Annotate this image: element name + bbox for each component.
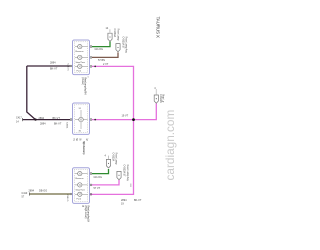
junction S-dot on W1 xyxy=(34,118,36,120)
U2 pin circles xyxy=(70,119,92,121)
W1 left end tick xyxy=(21,118,24,121)
wire W3 brown park feed upper xyxy=(92,52,119,57)
svg-text:BK-VT: BK-VT xyxy=(53,117,61,120)
svg-text:Rear Lamp: Rear Lamp xyxy=(115,153,118,165)
component U2 high mounted stoplamp box xyxy=(73,103,90,134)
svg-text:19 VT: 19 VT xyxy=(122,115,129,118)
W4 tick mark on vertical xyxy=(130,184,133,188)
svg-text:57 BN: 57 BN xyxy=(98,59,105,62)
connector C3 inline pentagon right pink xyxy=(154,95,158,103)
svg-text:Stop/Turn: Stop/Turn xyxy=(76,188,86,191)
bulb B1 reverse xyxy=(78,44,82,48)
wire W1 dark BK-VT stop lamp feed xyxy=(23,66,71,120)
bulb B3 park xyxy=(78,64,82,68)
connector C1 inline pentagon upper green xyxy=(108,33,112,41)
bulb B4 chmsl xyxy=(79,117,84,122)
component U3 rear lamp assembly lower box xyxy=(73,168,90,204)
svg-text:Reverse: Reverse xyxy=(76,50,85,53)
wire W6 green backup feed lower xyxy=(92,169,109,174)
connector C4 inline pentagon lower green xyxy=(106,159,110,168)
svg-text:19: 19 xyxy=(121,203,124,206)
svg-text:4: 4 xyxy=(105,154,107,157)
W5 junction dot xyxy=(132,118,135,121)
bulb B6 stop/turn xyxy=(78,183,82,187)
connector C2 inline pentagon upper brown xyxy=(116,44,120,52)
svg-text:C417: C417 xyxy=(16,116,22,119)
wire W7 pink VT lower mid xyxy=(92,180,120,185)
pentagon pin dots xyxy=(108,36,157,175)
U3 row leads xyxy=(75,174,88,195)
svg-text:14: 14 xyxy=(16,121,19,124)
svg-text:Mt: Mt xyxy=(75,138,78,141)
svg-text:2894: 2894 xyxy=(50,62,56,65)
svg-text:cardiagn.com: cardiagn.com xyxy=(163,110,177,181)
bulb B5 reverse xyxy=(78,171,82,175)
svg-text:C4331A 57: C4331A 57 xyxy=(121,37,124,50)
svg-text:Stop/Turn: Stop/Turn xyxy=(76,61,86,64)
U2 leads xyxy=(75,110,88,129)
svg-text:(Outer): (Outer) xyxy=(81,77,84,85)
svg-text:GN-OG: GN-OG xyxy=(95,48,104,51)
svg-text:2894: 2894 xyxy=(29,190,35,193)
svg-text:C4332A: C4332A xyxy=(111,153,114,162)
svg-text:C4331A: C4331A xyxy=(113,29,116,38)
svg-text:C4332A 57: C4332A 57 xyxy=(123,165,126,178)
U3 pin circles xyxy=(70,173,92,196)
svg-text:Rear Lamp: Rear Lamp xyxy=(116,29,119,41)
svg-text:C411 5: C411 5 xyxy=(66,195,68,203)
svg-text:St: St xyxy=(78,138,81,141)
wire W4 pink VT stop/turn upper + vertical run xyxy=(91,66,134,194)
U1 pin circles right xyxy=(70,46,92,68)
svg-text:DB-OG: DB-OG xyxy=(39,190,47,193)
svg-text:C4331: C4331 xyxy=(66,122,68,129)
wire W5 pink VT middle horizontal xyxy=(92,103,157,119)
svg-text:B: B xyxy=(81,206,84,208)
svg-text:C4331B: C4331B xyxy=(159,94,162,103)
svg-text:(High Level): (High Level) xyxy=(84,206,87,219)
C4 pin leader xyxy=(107,156,110,159)
svg-text:57 VT: 57 VT xyxy=(94,187,101,190)
svg-text:2 VT: 2 VT xyxy=(103,63,109,66)
svg-text:Hi: Hi xyxy=(72,138,75,141)
svg-text:BK-VT: BK-VT xyxy=(54,123,62,126)
bulb B7 park xyxy=(78,192,82,196)
svg-text:Stop Lp: Stop Lp xyxy=(162,94,165,103)
svg-text:Reverse: Reverse xyxy=(76,177,85,180)
svg-text:2894: 2894 xyxy=(40,123,46,126)
svg-text:2894: 2894 xyxy=(39,117,45,120)
W5 splice dot xyxy=(94,119,96,121)
component U1 rear lamp assembly upper box xyxy=(73,40,90,75)
W4 splice dot xyxy=(94,66,96,68)
svg-text:6: 6 xyxy=(88,77,90,79)
C1 pin leader xyxy=(109,29,112,32)
svg-text:2894: 2894 xyxy=(121,199,127,202)
svg-text:TAURUS X: TAURUS X xyxy=(156,17,161,39)
svg-text:Rear Lamp Asy: Rear Lamp Asy xyxy=(126,165,129,182)
connector C5 inline pentagon lower pink xyxy=(117,171,121,179)
svg-text:BK-VT: BK-VT xyxy=(134,199,142,202)
wire W8 olive park feed lower xyxy=(30,193,71,195)
W8 left end tick xyxy=(28,192,31,195)
wire W2 green backup feed upper xyxy=(92,41,111,46)
bulb B2 stop/turn xyxy=(78,55,82,59)
svg-text:Rear Lamp Asy: Rear Lamp Asy xyxy=(125,37,128,54)
svg-text:14: 14 xyxy=(106,27,109,30)
svg-text:57: 57 xyxy=(22,195,25,198)
svg-text:C410 5: C410 5 xyxy=(66,64,68,72)
svg-text:BK-VT: BK-VT xyxy=(50,68,58,71)
svg-text:High Mount Lamp: High Mount Lamp xyxy=(82,141,85,156)
U1 row leads xyxy=(75,47,88,67)
svg-text:GN-OG: GN-OG xyxy=(94,176,103,179)
connector C3 pin leader xyxy=(155,89,158,95)
